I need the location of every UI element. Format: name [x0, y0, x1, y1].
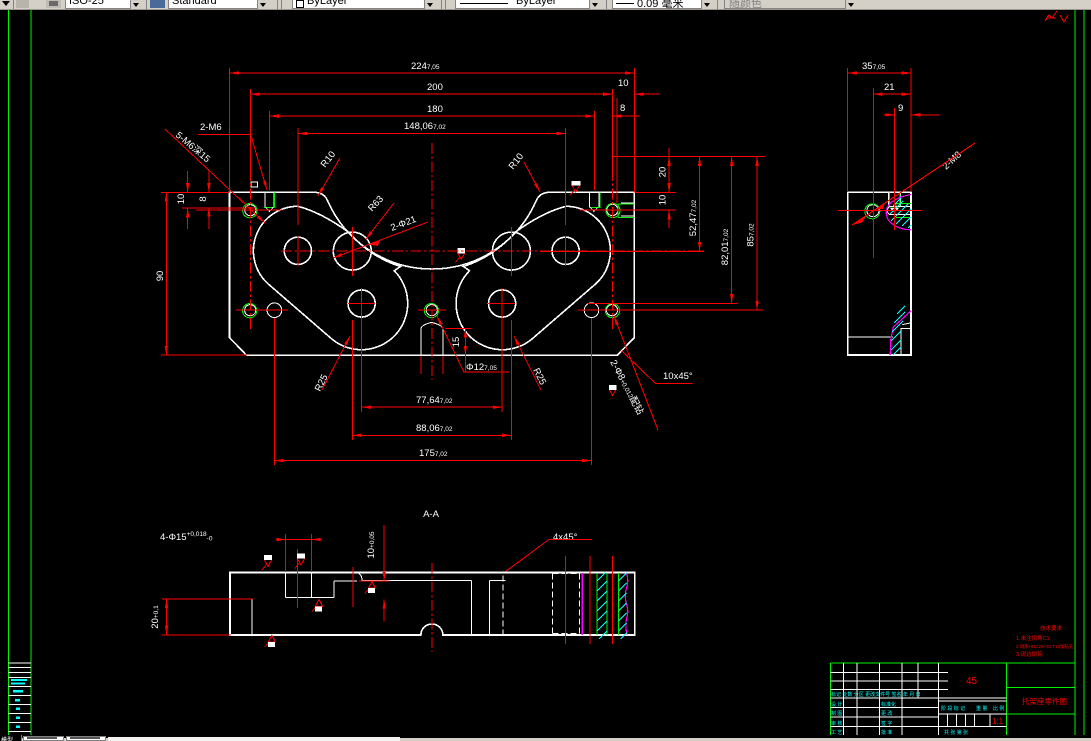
svg-text:8: 8: [198, 196, 209, 201]
svg-text:21: 21: [884, 82, 895, 93]
svg-text:设 计: 设 计: [831, 701, 842, 708]
svg-text:180: 180: [427, 104, 443, 115]
svg-text:10x45°: 10x45°: [663, 371, 693, 382]
svg-text:2-M6: 2-M6: [200, 122, 222, 133]
svg-text:200: 200: [427, 82, 443, 93]
svg-text:45: 45: [966, 676, 978, 687]
svg-text:10: 10: [618, 78, 629, 89]
svg-text:8: 8: [620, 103, 625, 114]
svg-text:签 字: 签 字: [881, 720, 892, 727]
svg-text:20: 20: [658, 167, 669, 178]
svg-text:阶 段 标 记: 阶 段 标 记: [941, 705, 965, 712]
svg-text:4x45°: 4x45°: [553, 532, 578, 543]
svg-text:技术要求: 技术要求: [1040, 624, 1063, 632]
svg-text:10: 10: [176, 194, 187, 205]
svg-text:审 核: 审 核: [831, 720, 842, 727]
svg-text:制 图: 制 图: [831, 710, 842, 717]
svg-text:3.锐边倒钝: 3.锐边倒钝: [1016, 650, 1043, 658]
svg-text:比 例: 比 例: [993, 705, 1004, 712]
svg-text:90: 90: [155, 271, 166, 282]
svg-text:更 改: 更 改: [881, 710, 892, 717]
svg-text:A-A: A-A: [423, 509, 440, 520]
svg-text:9: 9: [898, 103, 903, 114]
svg-text:1:1: 1:1: [992, 717, 1004, 726]
svg-text:1.未注倒角C1: 1.未注倒角C1: [1016, 634, 1050, 642]
svg-text:标准化: 标准化: [881, 701, 896, 708]
svg-text:标记 处数 分区 更改文件号 签名 年 月 日: 标记 处数 分区 更改文件号 签名 年 月 日: [831, 691, 921, 698]
svg-text:托架座零件图: 托架座零件图: [1022, 696, 1067, 706]
svg-text:15: 15: [451, 337, 462, 348]
svg-text:重 量: 重 量: [976, 705, 987, 712]
svg-text:2.调质HRC28~32,T10配钻孔: 2.调质HRC28~32,T10配钻孔: [1016, 643, 1074, 650]
svg-text:10: 10: [658, 195, 669, 206]
